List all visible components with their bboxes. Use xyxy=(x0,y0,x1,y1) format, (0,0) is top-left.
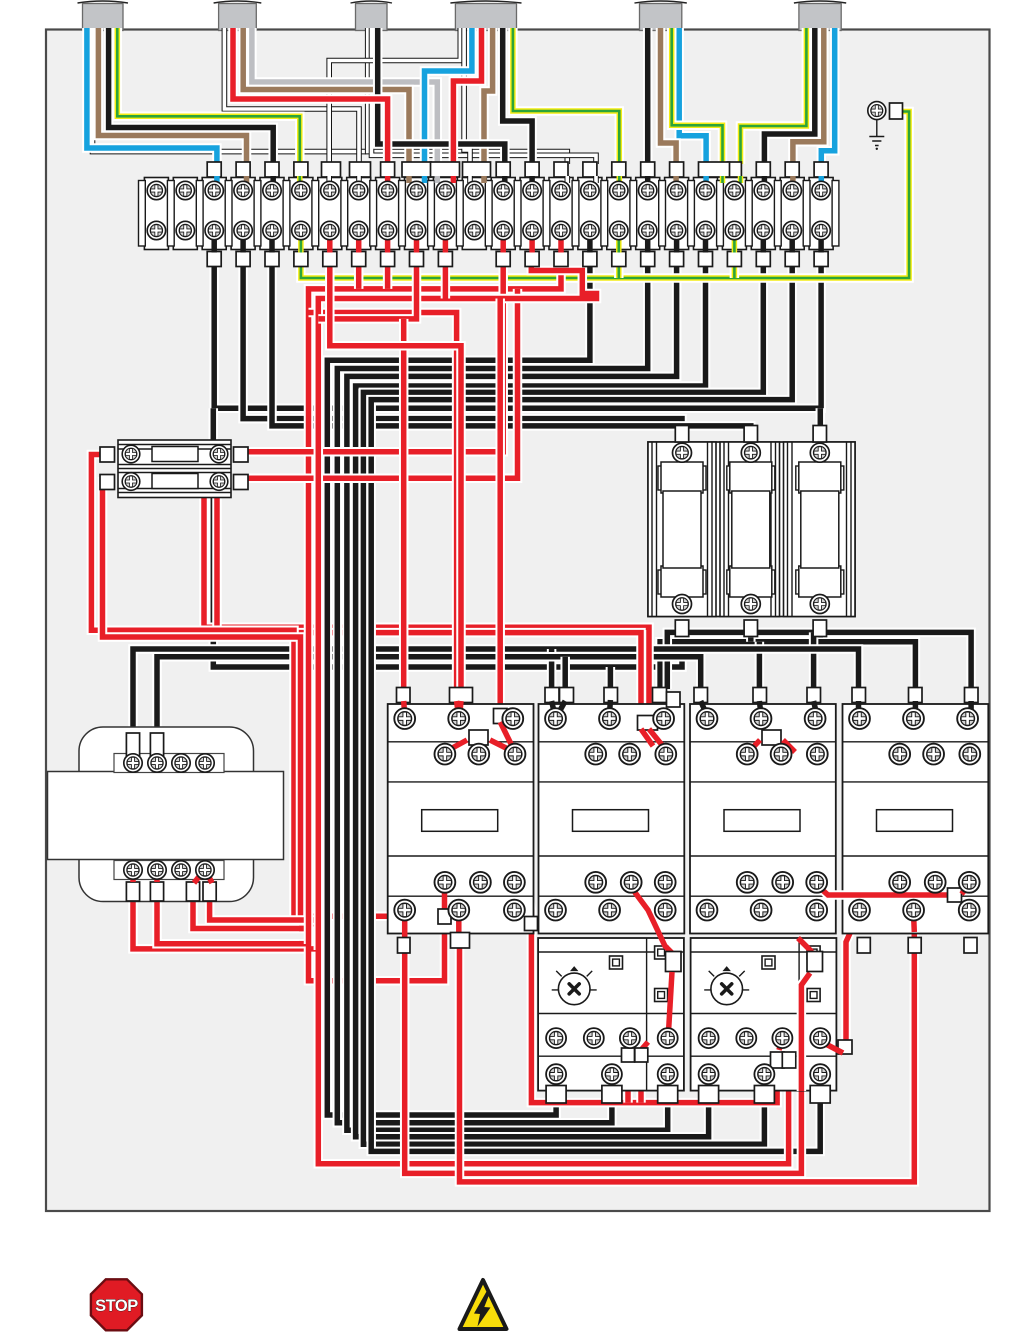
svg-text:STOP: STOP xyxy=(95,1297,138,1315)
